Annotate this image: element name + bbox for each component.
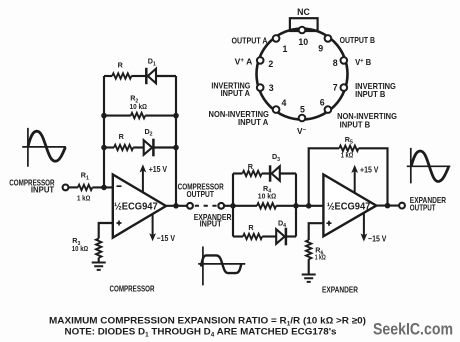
junction node R1 / feedback rail [101, 185, 107, 191]
resistor R5 [339, 146, 358, 151]
U2 +15V supply arrow [354, 170, 356, 193]
wire U1 + input to R3 [99, 223, 113, 239]
wire R to D3 [262, 172, 270, 174]
junction right rail / R4 [293, 203, 299, 209]
svg-text:NC: NC [297, 7, 310, 17]
pin 8 lead circle [341, 57, 348, 64]
compressed waveform [201, 255, 241, 273]
junction R5 tee [306, 203, 312, 209]
wire left rail to R2 [104, 115, 131, 117]
svg-text:EXPANDER: EXPANDER [322, 285, 358, 295]
svg-text:1 kΩ: 1 kΩ [341, 151, 354, 160]
svg-text:9: 9 [318, 43, 323, 53]
svg-text:1: 1 [283, 44, 288, 54]
pin 10 lead circle [299, 27, 306, 34]
resistor R (top, expander) [233, 172, 243, 174]
svg-text:OUTPUT A: OUTPUT A [232, 35, 268, 45]
pin 6 lead circle [325, 106, 332, 113]
wire D3 to right rail [280, 172, 296, 174]
svg-text:INPUT B: INPUT B [340, 120, 371, 130]
wire R5 top/right to output [359, 148, 388, 205]
pin 3 lead circle [257, 84, 264, 91]
svg-text:7: 7 [333, 82, 338, 92]
wire U2 + input to R6 [309, 223, 324, 240]
op-amp U2 (1/2 ECG947 expander) [323, 175, 376, 237]
svg-text:6: 6 [320, 98, 325, 108]
wire left feedback rail [103, 76, 105, 187]
svg-text:INPUT A: INPUT A [221, 88, 250, 98]
pin 1 lead circle [273, 35, 280, 42]
wire D1 to right rail [156, 75, 176, 77]
junction left rail / bottom branch [101, 145, 107, 151]
svg-text:1 kΩ: 1 kΩ [77, 193, 90, 202]
svg-text:INPUT A: INPUT A [238, 117, 268, 127]
output sine waveform axes [407, 148, 451, 184]
svg-text:1 kΩ: 1 kΩ [315, 253, 326, 262]
wire R to D4 [262, 235, 276, 237]
svg-text:+15 V: +15 V [360, 165, 379, 175]
resistor R1 [78, 185, 92, 190]
svg-text:8: 8 [333, 58, 338, 68]
compressor input terminal [63, 185, 69, 191]
compressed waveform axes [198, 247, 245, 286]
svg-text:INPUT: INPUT [31, 185, 54, 195]
svg-text:V+ A: V+ A [235, 57, 253, 67]
wire R6 to ground [308, 259, 310, 274]
ground (compressor) [92, 263, 106, 270]
junction U2 output / R5 rail [385, 203, 391, 209]
wire U1 output to terminal [166, 205, 187, 207]
resistor R4 [257, 203, 276, 208]
svg-text:R: R [118, 60, 124, 69]
dashed wire compressor output to expander input [195, 205, 217, 207]
junction U1 output / right rail [173, 203, 179, 209]
svg-text:V+ B: V+ B [355, 57, 371, 67]
svg-text:½ECG947: ½ECG947 [327, 202, 371, 213]
pin 5 lead circle [299, 115, 306, 122]
U1 non-inverting input mark [117, 221, 122, 226]
U2 -15V supply arrow [363, 214, 365, 237]
input sine waveform [28, 131, 66, 161]
junction expander input node [230, 203, 236, 209]
wire R to D1 [131, 75, 146, 77]
svg-text:5: 5 [300, 105, 305, 115]
U1 +15V supply arrow [142, 169, 144, 192]
U2 non-inverting input mark [327, 221, 332, 226]
svg-text:R: R [248, 162, 254, 171]
svg-text:2: 2 [268, 59, 273, 69]
svg-text:R: R [248, 223, 254, 232]
svg-text:½ECG947: ½ECG947 [114, 202, 158, 213]
wire U2 output to terminal [376, 205, 399, 207]
wire R2 to right rail [145, 115, 176, 117]
svg-text:OUTPUT B: OUTPUT B [340, 35, 375, 45]
svg-text:+15 V: +15 V [149, 164, 168, 174]
wire D2 to right rail [153, 146, 176, 148]
svg-text:3: 3 [269, 83, 274, 93]
input sine waveform axes [22, 128, 66, 167]
wire expander terminal to network [224, 205, 233, 207]
resistor R3 [96, 239, 101, 258]
resistor R2 [131, 113, 145, 118]
wire input terminal to R1 [69, 186, 78, 188]
svg-text:10 kΩ: 10 kΩ [130, 102, 148, 111]
svg-text:INPUT: INPUT [200, 219, 222, 229]
wire R4 to right rail [276, 205, 296, 207]
compressor output terminal [187, 203, 193, 209]
pin 9 lead circle [325, 35, 332, 42]
U1 inverting input mark [117, 185, 122, 187]
output sine waveform [411, 151, 448, 182]
diode D3 [269, 165, 272, 181]
wire right feedback rail [175, 76, 177, 206]
resistor R6 [306, 240, 311, 259]
wire R3 to ground [98, 258, 100, 263]
svg-text:4: 4 [282, 98, 287, 108]
junction right rail / bottom branch [173, 145, 179, 151]
resistor R (bottom, expander) [233, 235, 243, 237]
IC package NC tab [290, 18, 318, 31]
pin 7 lead circle [341, 84, 348, 91]
svg-text:10 kΩ: 10 kΩ [258, 191, 276, 200]
svg-text:SeekIC.com: SeekIC.com [373, 321, 453, 339]
wire left rail to R4 [233, 205, 257, 207]
ground (expander) [302, 275, 316, 282]
diode D4 [276, 229, 284, 244]
svg-text:COMPRESSOR: COMPRESSOR [110, 283, 155, 293]
svg-text:−15 V: −15 V [368, 233, 387, 243]
wire network to U2 input [296, 205, 323, 207]
svg-text:OUTPUT: OUTPUT [187, 189, 214, 199]
U1 -15V supply arrow [152, 215, 154, 237]
wire expander right rail [295, 174, 297, 237]
resistor R (bottom feedback, compressor) [104, 146, 114, 148]
pin 4 lead circle [273, 106, 280, 113]
svg-text:OUTPUT: OUTPUT [410, 203, 436, 213]
wire R1 to op-amp inverting input [92, 186, 113, 188]
wire D4 to right rail [286, 235, 296, 237]
svg-text:R: R [119, 132, 125, 141]
pin 2 lead circle [257, 57, 264, 64]
wire R to D2 [133, 146, 144, 148]
svg-text:INPUT B: INPUT B [355, 89, 385, 99]
IC package can outline (TO-5 top view) [257, 29, 348, 120]
junction right rail / R2 [173, 113, 179, 119]
diode D2 [144, 140, 152, 155]
op-amp U1 (1/2 ECG947 compressor) [113, 175, 166, 238]
svg-text:−15 V: −15 V [157, 233, 176, 243]
svg-text:10 kΩ: 10 kΩ [72, 244, 88, 253]
svg-text:10: 10 [298, 37, 308, 47]
wire R5 feedback left/top [309, 148, 340, 206]
resistor R (top feedback, compressor) [104, 75, 112, 77]
expander input terminal [218, 203, 224, 209]
junction left rail / R2 [101, 113, 107, 119]
expander output terminal [399, 203, 405, 209]
diode D1 [145, 68, 148, 84]
wire expander left rail [232, 174, 234, 237]
